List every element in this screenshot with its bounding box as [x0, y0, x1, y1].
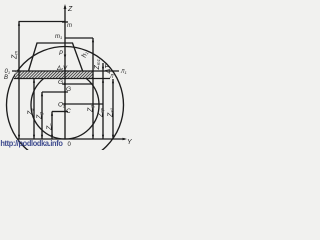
svg-text:Zm1: Zm1 — [94, 58, 101, 70]
conning tower trapezoid — [29, 43, 84, 72]
arrowheads — [18, 4, 127, 140]
Zc dim line — [51, 112, 53, 140]
Y axis — [18, 138, 126, 140]
svg-text:Z: Z — [67, 6, 73, 13]
paper background — [0, 0, 135, 150]
Z axis — [64, 6, 66, 139]
top arrows of dim lines — [18, 22, 20, 26]
P down arrow — [64, 55, 66, 60]
Z axis arrow — [64, 4, 67, 9]
svg-text:Zg1: Zg1 — [88, 102, 95, 113]
svg-text:Л1: Л1 — [120, 69, 127, 75]
Zm1 dim line — [92, 38, 94, 139]
C1 leader — [62, 103, 103, 105]
lower waterline BL — [14, 78, 110, 80]
svg-text:Zm: Zm — [12, 51, 19, 60]
svg-text:G1: G1 — [58, 79, 65, 86]
svg-text:Zв1: Zв1 — [108, 107, 115, 118]
Y axis arrow — [123, 138, 128, 140]
dT dim line — [102, 63, 104, 139]
dT arrows — [102, 67, 104, 71]
svg-text:http://podlodka.info: http://podlodka.info — [0, 138, 63, 148]
svg-text:P: P — [59, 51, 63, 57]
axis points — [64, 83, 66, 85]
m1 leader — [65, 37, 93, 39]
upper waterline B1L1 — [12, 70, 119, 72]
svg-text:Zcp: Zcp — [98, 107, 105, 118]
G leader — [42, 91, 68, 93]
inner pressure hull circle — [31, 71, 99, 139]
m level leader — [19, 21, 66, 23]
svg-text:m: m — [67, 23, 72, 29]
T dim line left — [33, 79, 35, 140]
svg-text:Zc: Zc — [47, 123, 54, 131]
m tick — [62, 21, 68, 23]
svg-text:C1: C1 — [58, 102, 65, 109]
svg-text:Zв: Zв — [28, 108, 35, 116]
svg-text:G: G — [66, 86, 71, 93]
C leader — [52, 111, 68, 113]
labels — [4, 6, 133, 148]
G1 leader — [62, 83, 93, 85]
hatched waterline band — [15, 71, 93, 79]
Zv1 dim line — [112, 79, 114, 139]
svg-text:В: В — [4, 75, 8, 81]
svg-text:Zg: Zg — [37, 112, 44, 120]
svg-text:ΔT: ΔT — [105, 64, 112, 75]
outer hull circle — [7, 47, 124, 164]
svg-text:C: C — [66, 108, 71, 115]
svg-text:m1: m1 — [55, 34, 62, 40]
Zm dim line — [18, 22, 20, 140]
Zg dim line — [41, 92, 43, 139]
bottom arrows — [18, 135, 20, 139]
svg-text:Л: Л — [109, 74, 114, 80]
